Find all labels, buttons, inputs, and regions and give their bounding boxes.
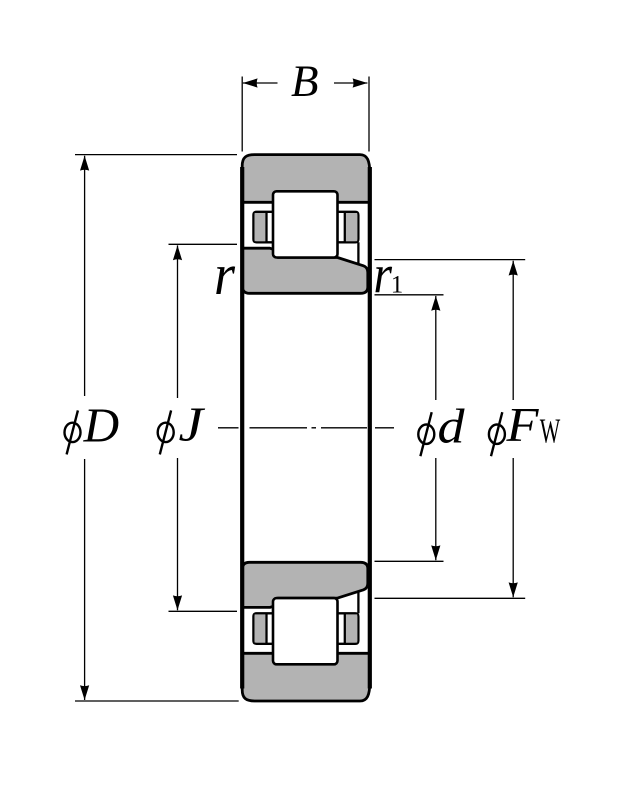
cage bar left (bottom section): [253, 613, 276, 644]
dimension phiJ extension line bottom: [169, 610, 238, 612]
cage bar left divider: [265, 212, 267, 243]
centerline dash 3: [321, 427, 367, 429]
svg-text:W: W: [540, 412, 561, 451]
cage bar left divider (bottom): [265, 613, 267, 644]
cage bar right divider: [344, 212, 346, 243]
outer ring top section: [242, 155, 370, 203]
cage bar right divider (bottom): [344, 613, 346, 644]
centerline dash 4: [375, 427, 394, 429]
svg-text:d: d: [438, 399, 466, 454]
svg-text:1: 1: [391, 272, 404, 299]
dimension phid arrow down: [431, 545, 440, 560]
dimension phid line lower: [435, 458, 437, 560]
centerline dash 1: [218, 427, 239, 429]
svg-text:J: J: [179, 397, 206, 452]
label phi of phiJ: [158, 410, 174, 454]
dimension phid extension line bottom: [375, 560, 444, 562]
dimension B line left part: [243, 82, 278, 84]
label phi of phiFw: [489, 412, 505, 456]
dimension B extension line right: [368, 77, 370, 152]
cage bar left gray pocket (bottom): [255, 614, 266, 642]
dimension B line right part: [334, 82, 367, 84]
dimension B extension line left: [241, 77, 243, 152]
cage bar left (top section): [253, 212, 276, 243]
dimension phiD arrow down: [80, 685, 89, 700]
dimension phiJ line upper: [177, 245, 179, 398]
svg-text:r: r: [214, 242, 235, 307]
svg-text:F: F: [505, 397, 539, 452]
dimension phiJ arrow up: [173, 245, 182, 260]
dimension phiD line upper: [84, 156, 86, 396]
inner ring bottom section: [242, 562, 367, 607]
dimension phiFw arrow down: [509, 582, 518, 597]
dimension phiD extension line top: [75, 154, 237, 156]
dimension phiFw extension line top: [375, 259, 526, 261]
bore silhouette line left: [240, 167, 244, 689]
roller (bottom section): [273, 598, 338, 664]
cage bar right (top section): [336, 212, 358, 243]
dimension phid line upper: [435, 296, 437, 400]
cage right guide line (bottom section): [357, 592, 359, 614]
dimension phiD extension line bottom: [75, 700, 239, 702]
dimension phiJ arrow down: [173, 595, 182, 610]
outer ring bottom section: [242, 653, 370, 701]
dimension phiFw line upper: [512, 261, 514, 400]
dimension phiD line lower: [84, 459, 86, 700]
svg-text:B: B: [291, 57, 319, 106]
cage bar right gray pocket: [346, 213, 357, 241]
label phi of phiD: [65, 410, 81, 454]
inner ring top section: [242, 248, 367, 293]
dimension phid arrow up: [431, 296, 440, 311]
dimension phid extension line top: [375, 294, 444, 296]
dimension B arrow left: [243, 78, 258, 87]
dimension phiJ extension line top: [169, 243, 238, 245]
centerline dash 2: [250, 427, 308, 429]
dimension B arrow right: [353, 78, 368, 87]
dimension phiJ line lower: [177, 458, 179, 610]
cage bar right (bottom section): [336, 613, 358, 644]
centerline dot 1: [312, 427, 317, 429]
cage bar right gray pocket (bottom): [346, 614, 357, 642]
cage right guide line (top section): [357, 242, 359, 264]
bore silhouette line right: [368, 167, 372, 689]
svg-text:D: D: [83, 398, 120, 453]
cage bar left gray pocket: [255, 213, 266, 241]
label phi of phid: [418, 412, 434, 456]
dimension phiD arrow up: [80, 156, 89, 171]
dimension phiFw arrow up: [509, 261, 518, 276]
roller (top section): [273, 191, 338, 257]
dimension phiFw line lower: [512, 458, 514, 597]
dimension phiFw extension line bottom: [375, 597, 526, 599]
